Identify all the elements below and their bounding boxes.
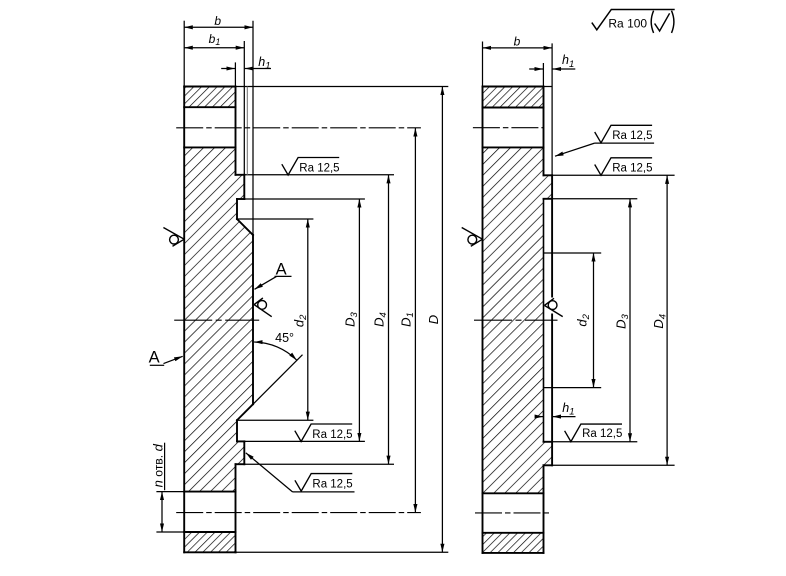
extension line: hole d bottom xyxy=(156,531,184,533)
top edge xyxy=(184,86,235,88)
chamfer 45 thin continuation xyxy=(254,355,303,404)
chamfer 45 top xyxy=(237,219,253,235)
extension line: top edge short xyxy=(544,86,553,88)
center line bolt hole bottom right fig xyxy=(475,512,552,514)
plate face upper xyxy=(235,87,237,175)
center line bolt hole bottom xyxy=(176,512,421,514)
left edge xyxy=(183,87,185,553)
spigot face lower part xyxy=(551,315,553,466)
extension line: d2 bottom xyxy=(544,387,602,389)
left edge xyxy=(482,87,484,553)
svg-text:Ra 12,5: Ra 12,5 xyxy=(612,162,652,174)
extension line: hole d top xyxy=(156,491,184,493)
hatch: right flange bottom block xyxy=(483,533,544,553)
svg-text:Ra 12,5: Ra 12,5 xyxy=(312,478,352,490)
parentheses with check mark xyxy=(651,11,674,33)
extension line: h1 left xyxy=(542,63,544,87)
dimension n otv d xyxy=(161,492,163,532)
extension line: b right xyxy=(252,21,254,235)
boss face xyxy=(252,235,254,404)
dimension D4 right fig xyxy=(666,175,668,465)
extension line: ring edge top to D3 xyxy=(552,198,637,200)
dimension D4 xyxy=(388,175,390,464)
extension line: d2 top xyxy=(544,252,602,254)
hatch: right flange main body xyxy=(483,147,553,493)
faint phantom line xyxy=(246,87,248,175)
bolt hole top: edges xyxy=(483,107,544,109)
Ra 12,5 mark with leader to spigot face right fig xyxy=(555,143,595,156)
chamfer 45 bottom xyxy=(237,404,253,420)
step top xyxy=(236,174,245,176)
extension line: top edge to D xyxy=(236,86,449,88)
left flange outline xyxy=(184,87,253,553)
45 degree arc xyxy=(254,342,297,360)
groove ledge bottom xyxy=(237,440,244,442)
Ra 12,5 mark on D4 top extension xyxy=(282,158,339,176)
extension line: b1 right xyxy=(243,41,245,175)
extension line: h1 left xyxy=(234,62,236,86)
svg-text:D: D xyxy=(426,315,441,324)
bottom edge xyxy=(184,551,236,553)
extension line: chamfer top to d2 xyxy=(237,218,313,220)
dimension D3 xyxy=(358,199,360,441)
svg-text:b: b xyxy=(214,14,221,28)
right flange outline xyxy=(483,87,553,553)
hatch: left flange main body xyxy=(184,147,253,491)
Ra 12,5 mark with leader to ring face xyxy=(246,453,293,492)
groove wall bottom xyxy=(236,420,238,441)
step bottom xyxy=(544,464,553,466)
svg-text:Ra 12,5: Ra 12,5 xyxy=(312,429,352,441)
tongue face boundary middle xyxy=(543,199,545,442)
dimension b right fig xyxy=(483,47,553,49)
axis center line left fig xyxy=(174,319,259,321)
extension line: step top to D4 xyxy=(244,174,394,176)
bottom edge xyxy=(483,552,544,554)
extension line: groove ledge top to D3 xyxy=(244,198,365,200)
dimension b1 xyxy=(184,47,244,49)
plate face upper xyxy=(543,87,545,176)
dimension h1 arrows xyxy=(221,68,235,70)
svg-text:Ra 12,5: Ra 12,5 xyxy=(299,163,339,175)
groove ledge top xyxy=(237,198,244,200)
dimension D1 xyxy=(414,128,416,513)
dimension D xyxy=(441,87,443,553)
svg-text:Ra 100: Ra 100 xyxy=(608,16,647,30)
svg-text:b: b xyxy=(514,34,521,48)
dimension h1 bottom arrows right fig xyxy=(535,416,543,418)
center line bolt hole top right fig xyxy=(473,127,544,129)
extension line: step top to D4 xyxy=(552,174,675,176)
dimension d2 right fig xyxy=(593,253,595,388)
extension line: chamfer bottom to d2 xyxy=(237,419,313,421)
hatch: left flange top block xyxy=(184,87,235,108)
extension line: groove ledge bottom to D3 xyxy=(244,440,365,442)
svg-text:Ra 12,5: Ra 12,5 xyxy=(582,428,622,440)
Ra 12,5 mark on D3 bottom extension right fig xyxy=(565,424,622,442)
roughness circle symbol on left face xyxy=(163,228,184,247)
dimension h1 top arrows right fig xyxy=(529,68,543,70)
svg-text:Ra 12,5: Ra 12,5 xyxy=(612,130,652,142)
extension line: ring edge bottom to D3 xyxy=(552,441,637,443)
bolt hole bottom: edges xyxy=(483,492,544,494)
general Ra 100 roughness mark xyxy=(592,10,675,30)
Ra 12,5 mark on D4 top extension right fig xyxy=(595,158,652,176)
extension line: b right xyxy=(551,43,553,175)
axis center line right fig xyxy=(474,319,558,321)
bolt hole top: edges xyxy=(184,106,235,108)
spigot face upper part xyxy=(551,175,553,296)
extension line: bottom edge to D xyxy=(236,551,449,553)
extension line: step bottom to D4 xyxy=(552,464,675,466)
dimension b xyxy=(184,26,253,28)
ring face top xyxy=(243,175,245,199)
dimension D3 right fig xyxy=(629,199,631,442)
svg-text:A: A xyxy=(149,348,160,366)
hatch: left flange bottom block xyxy=(184,532,236,552)
ring face bottom xyxy=(243,441,245,464)
Ra 12,5 mark on D3 bottom extension xyxy=(295,424,352,442)
hatch: right flange top block xyxy=(483,87,544,108)
ring edge top xyxy=(544,198,553,200)
svg-text:45°: 45° xyxy=(275,331,294,345)
roughness circle symbol on right fig left face xyxy=(462,228,483,247)
dimension d2 xyxy=(307,219,309,420)
plate face lower xyxy=(543,465,545,553)
ring edge bottom xyxy=(544,441,553,443)
extension line: b left xyxy=(183,21,185,87)
plate face lower xyxy=(235,464,237,552)
svg-text:n отв. d: n отв. d xyxy=(150,443,165,487)
center line bolt hole top xyxy=(176,127,421,129)
extension line: step bottom to D4 xyxy=(244,463,394,465)
top edge xyxy=(483,86,544,88)
groove wall top xyxy=(236,199,238,219)
roughness circle symbol on boss face xyxy=(254,298,272,317)
roughness circle symbol on tongue face xyxy=(544,298,562,316)
bolt hole bottom: edges xyxy=(184,491,235,493)
step bottom xyxy=(236,463,245,465)
step top xyxy=(544,174,553,176)
underline of n otv d label xyxy=(164,443,166,491)
extension line: b left xyxy=(482,42,484,87)
